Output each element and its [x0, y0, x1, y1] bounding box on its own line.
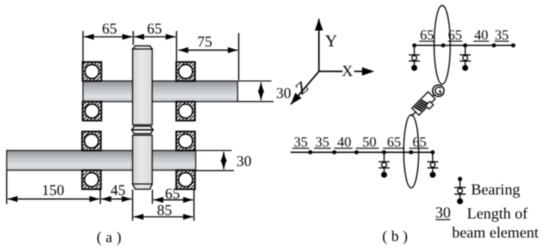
svg-text:65: 65 — [102, 21, 117, 37]
dimension 65 (left) — [84, 36, 132, 38]
bearing A1 bottom — [83, 102, 102, 121]
svg-text:30: 30 — [276, 86, 291, 102]
svg-text:Y: Y — [325, 32, 337, 51]
extension line bottom bearing-right x194 — [193, 190, 195, 221]
bearing symbol b-up-1 — [409, 45, 420, 71]
dimension 30 upper: lines — [238, 80, 272, 82]
svg-text:Z: Z — [292, 77, 312, 98]
dimension 45 — [101, 198, 131, 200]
beam lower — [291, 151, 433, 153]
bearing B1 top (lower shaft left) — [82, 132, 101, 151]
bearing A1 top (upper shaft left) — [83, 62, 102, 81]
svg-text:(b): (b) — [382, 229, 412, 245]
extension line bottom bearing x100.3 — [99, 189, 101, 204]
svg-text:beam element: beam element — [452, 225, 539, 242]
axis X — [319, 70, 363, 72]
dimension 150 — [8, 198, 100, 200]
svg-text:30: 30 — [237, 154, 252, 170]
extension line bottom gear-right x152.4 — [151, 190, 153, 204]
lower shaft — [7, 151, 196, 171]
svg-text:85: 85 — [157, 203, 172, 219]
dimension 75 — [178, 49, 237, 51]
extension line bottom gear-left x132.6 — [132, 190, 134, 221]
dimension 65 (second) — [134, 36, 175, 38]
mesh coupling spring-damper box — [412, 92, 437, 117]
bearing B2 top (lower shaft right) — [176, 132, 195, 151]
svg-text:30: 30 — [435, 204, 451, 221]
svg-text:75: 75 — [197, 35, 212, 51]
svg-text:65: 65 — [165, 186, 180, 202]
gear 2 bottom cap — [133, 184, 153, 189]
extension line bearing2-top x176.5 — [176, 31, 178, 61]
bearing symbol b-low-2 — [427, 152, 438, 178]
axis Y — [318, 19, 320, 72]
bearing A2 bottom — [176, 102, 195, 121]
bearing B2 bottom — [176, 170, 195, 189]
upper shaft — [83, 81, 238, 102]
dimension 30 lower: lines — [196, 150, 232, 152]
bearing symbol b-low-1 — [379, 152, 390, 178]
dimension 30 lower: arrow — [223, 152, 225, 169]
gear mesh barrel — [132, 126, 153, 134]
node dots lower — [308, 150, 434, 154]
gear 2 body (lower) — [133, 135, 153, 184]
svg-text:Bearing: Bearing — [471, 182, 520, 199]
dimension 85 — [134, 216, 193, 218]
svg-text:X: X — [342, 63, 353, 80]
label X — [343, 65, 355, 78]
extension line gear-left-top x133.2 — [132, 31, 134, 45]
svg-text:65: 65 — [147, 21, 162, 37]
svg-text:Length of: Length of — [467, 206, 529, 223]
bearing B1 bottom — [82, 170, 101, 189]
bearing A2 top (upper shaft right) — [176, 62, 195, 81]
extension line top-left x83 — [82, 31, 84, 62]
svg-text:150: 150 — [42, 183, 65, 199]
gear 1 top cap — [133, 46, 153, 49]
node dots upper — [412, 43, 515, 47]
dimension 65 bottom — [153, 199, 193, 201]
legend bearing symbol — [454, 177, 465, 205]
axis Z — [291, 71, 319, 104]
gear ellipse upper — [434, 6, 450, 85]
mesh coupling spiral circle — [433, 85, 444, 96]
dimension 30 upper: arrow — [260, 82, 262, 100]
gear ellipse lower — [404, 115, 419, 188]
gear 1 body (upper) — [133, 49, 153, 125]
beam upper — [414, 44, 513, 46]
extension line bottom shaft-left x6.7 — [6, 171, 8, 205]
bearing symbol b-up-2 — [460, 45, 471, 71]
svg-text:(a): (a) — [97, 230, 126, 246]
svg-text:45: 45 — [111, 183, 126, 199]
mesh coupling link line — [411, 91, 438, 117]
extension line shaft1-end x238.7 — [238, 33, 240, 80]
